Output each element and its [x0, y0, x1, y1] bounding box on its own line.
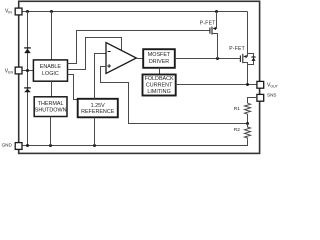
svg-text:P-FET: P-FET [229, 46, 245, 52]
wire enable logic to Q1 gate [68, 31, 210, 64]
wire enable logic to thermal shutdown [51, 81, 53, 97]
node Q2 drain / VOUT junction [246, 83, 249, 86]
wire enable logic to reference [68, 75, 79, 100]
wire VIN feed down to pass FET source [247, 12, 249, 57]
svg-text:THERMAL: THERMAL [38, 101, 64, 107]
wire reference output to amp inverting input [95, 54, 107, 99]
node Q1 drain / gate line junction [216, 57, 219, 60]
svg-text:GND: GND [2, 142, 13, 147]
diode D2 (GND to VEN clamp) [24, 88, 31, 92]
wire thermal shutdown to ground [50, 117, 52, 146]
svg-text:CURRENT: CURRENT [146, 82, 173, 88]
node GND/thermal junction [49, 144, 52, 147]
wire ESD diode line (VIN to GND through VEN) [27, 12, 29, 146]
block FOLDBACK CURRENT LIMITING [143, 75, 176, 96]
body diode of Q2 [248, 54, 256, 65]
pin VOUT [257, 81, 279, 88]
svg-text:MOSFET: MOSFET [148, 52, 171, 58]
diode D1 (VEN to VIN clamp) [24, 48, 31, 53]
svg-text:LIMITING: LIMITING [147, 89, 170, 95]
node VIN/diode-line junction [26, 10, 29, 13]
pin VIN [5, 8, 22, 15]
wire VEN to enable logic [22, 70, 33, 72]
wire VIN rail down to enable logic [51, 12, 53, 60]
wire enable logic to error amp enable [68, 38, 122, 70]
IC case border [19, 1, 260, 153]
svg-text:REFERENCE: REFERENCE [81, 109, 115, 115]
resistor R2 [234, 124, 251, 140]
wire feedback to amp non-inverting input [101, 67, 248, 124]
node GND/reference junction [93, 144, 96, 147]
block ENABLE LOGIC [33, 60, 67, 81]
node VIN/enable junction [50, 10, 53, 13]
svg-text:SHUTDOWN: SHUTDOWN [35, 107, 67, 113]
block 1.25V REFERENCE [78, 99, 118, 118]
wire mosfet driver to foldback [159, 68, 161, 75]
wire GND rail [22, 139, 247, 145]
svg-text:SNS: SNS [267, 93, 276, 98]
svg-text:ENABLE: ENABLE [40, 64, 62, 70]
svg-text:DRIVER: DRIVER [149, 59, 169, 65]
block THERMAL SHUTDOWN [34, 97, 67, 117]
svg-text:R1: R1 [234, 106, 240, 112]
transistor Q2 P-FET (pass element) [229, 46, 247, 85]
node VEN/diode-line junction [26, 69, 29, 72]
svg-text:R2: R2 [234, 127, 240, 133]
transistor Q1 P-FET (shutdown pull-up) [200, 12, 218, 59]
node GND/diode-line junction [26, 144, 29, 147]
node R1/R2 feedback junction [246, 122, 249, 125]
node VIN/Q1-source junction [215, 10, 218, 13]
wire reference to ground [94, 117, 96, 145]
wire SNS to divider top [248, 98, 257, 104]
pin GND [2, 142, 22, 149]
svg-text:P-FET: P-FET [200, 21, 216, 27]
resistor R1 [234, 103, 251, 123]
pin SNS [257, 93, 277, 102]
op-amp U1 error amplifier [106, 43, 136, 74]
svg-text:LOGIC: LOGIC [42, 71, 59, 77]
wire foldback to VOUT line [176, 84, 257, 86]
wire amp output to mosfet driver [136, 58, 143, 60]
wire mosfet driver to Q2 gate [175, 58, 240, 60]
pin VEN [5, 67, 22, 74]
svg-text:FOLDBACK: FOLDBACK [145, 76, 174, 82]
wire VIN rail [22, 11, 247, 13]
block MOSFET DRIVER [143, 49, 175, 68]
